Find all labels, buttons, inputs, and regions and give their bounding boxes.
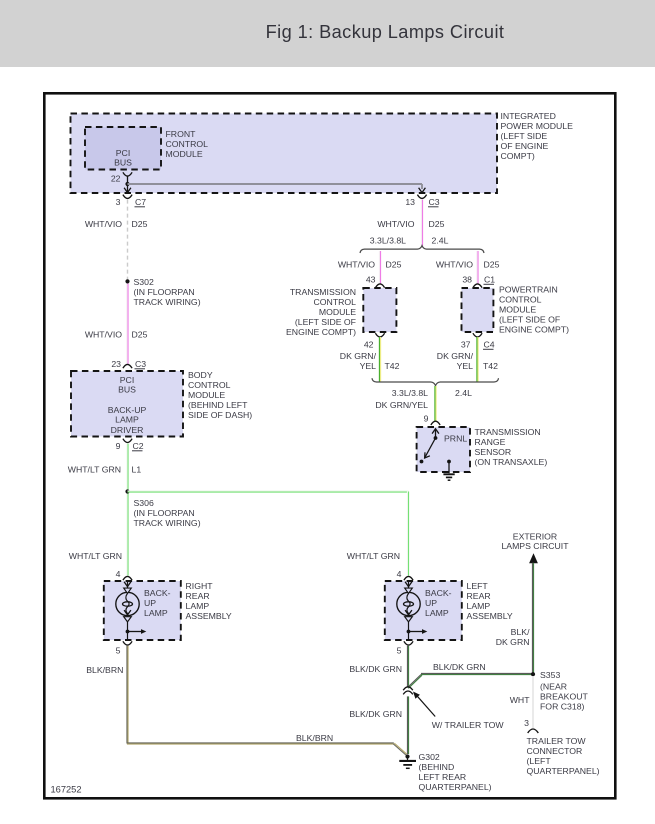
svg-text:167252: 167252	[51, 785, 82, 795]
wire BLK/DK GRN up to exterior lamps	[531, 563, 533, 674]
svg-text:LAMP: LAMP	[467, 601, 491, 611]
body control module (BCM) box	[71, 371, 183, 437]
svg-text:3.3L/3.8L: 3.3L/3.8L	[392, 388, 428, 398]
svg-text:WHT/LT GRN: WHT/LT GRN	[69, 551, 122, 561]
svg-text:TRACK WIRING): TRACK WIRING)	[134, 297, 201, 307]
svg-text:MODULE: MODULE	[319, 307, 356, 317]
pin 3 connector C7	[123, 195, 132, 199]
ground G302	[405, 754, 409, 758]
svg-text:OF ENGINE: OF ENGINE	[501, 141, 549, 151]
svg-text:DK GRN/: DK GRN/	[340, 351, 377, 361]
svg-text:ENGINE COMPT): ENGINE COMPT)	[286, 327, 356, 337]
svg-text:WHT/LT GRN: WHT/LT GRN	[68, 465, 121, 475]
svg-text:38: 38	[462, 275, 472, 285]
svg-text:RIGHT: RIGHT	[186, 581, 214, 591]
diagram frame	[44, 93, 615, 798]
svg-text:(LEFT SIDE OF: (LEFT SIDE OF	[499, 315, 560, 325]
svg-text:CONTROL: CONTROL	[314, 297, 357, 307]
svg-text:3.3L/3.8L: 3.3L/3.8L	[370, 236, 406, 246]
wire WHT/VIO to TCM	[378, 251, 380, 284]
svg-text:SENSOR: SENSOR	[475, 447, 512, 457]
wire WHT to trailer tow connector	[532, 676, 534, 728]
svg-text:WHT/VIO: WHT/VIO	[377, 219, 414, 229]
wire WHT/LT GRN branch to right	[128, 490, 409, 492]
svg-text:9: 9	[116, 441, 121, 451]
svg-text:WHT/VIO: WHT/VIO	[85, 219, 122, 229]
svg-text:(BEHIND: (BEHIND	[419, 762, 455, 772]
svg-text:LAMP: LAMP	[186, 601, 210, 611]
svg-text:BLK/: BLK/	[511, 627, 530, 637]
wire BLK/DK GRN below left lamp	[406, 646, 408, 688]
svg-text:BLK/DK GRN: BLK/DK GRN	[433, 662, 486, 672]
svg-text:(LEFT SIDE OF: (LEFT SIDE OF	[295, 317, 356, 327]
svg-text:5: 5	[397, 645, 402, 655]
svg-text:PCI: PCI	[120, 375, 134, 385]
integrated power module (IPM) box	[71, 114, 498, 194]
svg-text:WHT/VIO: WHT/VIO	[436, 260, 473, 270]
svg-text:3: 3	[116, 197, 121, 207]
svg-text:C3: C3	[429, 197, 440, 207]
splice S306	[125, 489, 129, 493]
svg-text:LAMP: LAMP	[144, 608, 168, 618]
svg-text:FRONT: FRONT	[166, 129, 197, 139]
svg-text:TRAILER TOW: TRAILER TOW	[527, 736, 587, 746]
svg-text:23: 23	[111, 359, 121, 369]
svg-text:UP: UP	[425, 598, 437, 608]
svg-text:ASSEMBLY: ASSEMBLY	[467, 611, 513, 621]
in-line connector (w/ trailer tow)	[403, 687, 413, 690]
svg-text:MODULE: MODULE	[188, 390, 225, 400]
svg-text:WHT/VIO: WHT/VIO	[85, 330, 122, 340]
pin 5 (right rear lamp)	[123, 641, 132, 645]
wire WHT/VIO S302 to BCM	[126, 284, 128, 365]
svg-text:2.4L: 2.4L	[432, 236, 449, 246]
svg-text:T42: T42	[385, 361, 400, 371]
svg-text:S302: S302	[134, 277, 154, 287]
splice S302	[125, 279, 129, 283]
svg-text:D25: D25	[429, 219, 445, 229]
svg-text:43: 43	[366, 275, 376, 285]
svg-text:EXTERIOR: EXTERIOR	[513, 531, 557, 541]
svg-text:C1: C1	[484, 275, 495, 285]
powertrain control module (PCM) box	[462, 288, 494, 332]
svg-text:POWER MODULE: POWER MODULE	[501, 121, 574, 131]
svg-text:RANGE: RANGE	[475, 437, 506, 447]
svg-text:BACK-UP: BACK-UP	[108, 405, 147, 415]
svg-text:BACK-: BACK-	[144, 588, 171, 598]
svg-text:SIDE OF DASH): SIDE OF DASH)	[188, 410, 252, 420]
svg-text:42: 42	[364, 340, 374, 350]
lamp case ground arrow (right)	[126, 630, 130, 634]
wire BLK/DK GRN diagonal branch	[408, 675, 422, 688]
svg-text:5: 5	[116, 645, 121, 655]
svg-text:4: 4	[397, 569, 402, 579]
svg-text:BLK/BRN: BLK/BRN	[296, 733, 333, 743]
wire WHT/VIO to PCM	[476, 251, 478, 284]
svg-text:FOR C318): FOR C318)	[540, 701, 585, 711]
pin 9 connector C2 (BCM)	[123, 439, 132, 443]
wire drop to pin 13	[421, 184, 423, 189]
svg-text:DRIVER: DRIVER	[111, 425, 144, 435]
svg-text:22: 22	[111, 174, 121, 184]
svg-text:BACK-: BACK-	[425, 588, 452, 598]
svg-text:CONTROL: CONTROL	[499, 295, 542, 305]
svg-text:C4: C4	[484, 340, 495, 350]
W/ TRAILER TOW callout arrow	[417, 695, 436, 716]
svg-text:BREAKOUT: BREAKOUT	[540, 691, 588, 701]
svg-text:9: 9	[424, 414, 429, 424]
back-up lamp bulb (left)	[408, 581, 410, 588]
svg-text:S306: S306	[134, 498, 154, 508]
svg-text:BLK/DK GRN: BLK/DK GRN	[349, 664, 402, 674]
svg-text:BLK/DK GRN: BLK/DK GRN	[349, 709, 402, 719]
svg-text:LAMP: LAMP	[425, 608, 449, 618]
svg-text:(NEAR: (NEAR	[540, 681, 567, 691]
splice S353	[531, 672, 535, 676]
svg-text:REAR: REAR	[186, 591, 210, 601]
svg-text:(ON TRANSAXLE): (ON TRANSAXLE)	[475, 457, 548, 467]
svg-text:T42: T42	[483, 361, 498, 371]
svg-text:PCI: PCI	[116, 148, 130, 158]
svg-text:LEFT REAR: LEFT REAR	[419, 772, 467, 782]
svg-text:REAR: REAR	[467, 591, 491, 601]
pin 5 (left rear lamp)	[404, 641, 413, 645]
svg-text:2.4L: 2.4L	[455, 388, 472, 398]
svg-text:(BEHIND LEFT: (BEHIND LEFT	[188, 400, 248, 410]
svg-text:BODY: BODY	[188, 370, 213, 380]
title bar	[0, 0, 655, 67]
TRS internal ground contact	[447, 460, 451, 464]
TRS switch: entry arrow	[435, 429, 437, 438]
svg-text:UP: UP	[144, 598, 156, 608]
svg-text:BLK/BRN: BLK/BRN	[86, 665, 123, 675]
transmission control module (TCM) box	[363, 288, 396, 332]
engine split brace	[360, 246, 484, 253]
TRS switch arm	[425, 438, 436, 458]
pin 37 connector C4 (PCM bottom)	[473, 333, 482, 337]
svg-text:WHT/VIO: WHT/VIO	[338, 260, 375, 270]
wire DK GRN/YEL T42 from TCM	[378, 337, 380, 382]
pin 13 connector C3	[417, 195, 426, 199]
TRS switch common contact	[434, 436, 438, 440]
wire WHT/LT GRN down to left rear lamp	[406, 492, 408, 576]
svg-text:BUS: BUS	[118, 385, 136, 395]
svg-text:BUS: BUS	[114, 158, 132, 168]
wire DK GRN/YEL to TRS	[434, 386, 436, 421]
svg-text:(IN FLOORPAN: (IN FLOORPAN	[134, 287, 195, 297]
svg-text:C3: C3	[135, 359, 146, 369]
svg-text:PRNL: PRNL	[444, 434, 467, 444]
svg-text:(LEFT: (LEFT	[527, 756, 552, 766]
wire WHT/VIO from IPM pin 13	[420, 200, 422, 246]
PCI bus line inside IPM	[128, 183, 423, 185]
engine merge brace	[372, 378, 499, 385]
svg-text:YEL: YEL	[360, 361, 377, 371]
svg-text:CONTROL: CONTROL	[188, 380, 231, 390]
svg-text:INTEGRATED: INTEGRATED	[501, 111, 556, 121]
svg-text:DK GRN/: DK GRN/	[437, 351, 474, 361]
svg-text:L1: L1	[132, 465, 142, 475]
wire: dashed bus wire C7 to S302	[127, 200, 129, 280]
wire DK GRN/YEL T42 from PCM	[476, 337, 478, 382]
svg-text:MODULE: MODULE	[166, 149, 203, 159]
svg-text:DK GRN/YEL: DK GRN/YEL	[375, 400, 428, 410]
svg-text:CONNECTOR: CONNECTOR	[527, 746, 583, 756]
svg-text:(IN FLOORPAN: (IN FLOORPAN	[134, 508, 195, 518]
svg-text:D25: D25	[132, 330, 148, 340]
svg-text:(LEFT SIDE: (LEFT SIDE	[501, 131, 548, 141]
svg-text:13: 13	[405, 197, 415, 207]
svg-text:POWERTRAIN: POWERTRAIN	[499, 285, 558, 295]
svg-text:ASSEMBLY: ASSEMBLY	[186, 611, 232, 621]
svg-text:WHT: WHT	[510, 695, 530, 705]
svg-text:W/ TRAILER TOW: W/ TRAILER TOW	[432, 720, 505, 730]
svg-text:37: 37	[461, 340, 471, 350]
svg-text:S353: S353	[540, 670, 560, 680]
wire BLK/DK GRN connector to G302	[406, 696, 408, 754]
TRS switch PRNL contact	[420, 460, 424, 464]
pin 42 (TCM bottom)	[375, 333, 384, 337]
svg-text:COMPT): COMPT)	[501, 151, 535, 161]
svg-text:D25: D25	[484, 260, 500, 270]
transmission range sensor (TRS) box	[417, 427, 470, 472]
svg-text:MODULE: MODULE	[499, 305, 536, 315]
svg-text:TRANSMISSION: TRANSMISSION	[290, 287, 356, 297]
svg-text:WHT/LT GRN: WHT/LT GRN	[347, 551, 400, 561]
svg-text:LAMP: LAMP	[115, 415, 139, 425]
svg-text:D25: D25	[386, 260, 402, 270]
svg-text:ENGINE COMPT): ENGINE COMPT)	[499, 325, 569, 335]
svg-text:DK GRN: DK GRN	[496, 637, 530, 647]
svg-text:TRANSMISSION: TRANSMISSION	[475, 427, 541, 437]
svg-text:3: 3	[524, 718, 529, 728]
svg-text:G302: G302	[419, 752, 440, 762]
back-up lamp bulb (right)	[127, 581, 129, 588]
junction node inside IPM	[125, 182, 129, 186]
left rear lamp assembly box	[385, 581, 462, 640]
wire BLK/BRN diagonal into G302	[393, 744, 406, 755]
PCI BUS box inside IPM (front control module)	[85, 127, 161, 170]
svg-text:QUARTERPANEL): QUARTERPANEL)	[527, 766, 600, 776]
svg-text:LEFT: LEFT	[467, 581, 489, 591]
wire BLK/DK GRN horizontal to S353	[421, 672, 533, 674]
svg-text:C7: C7	[135, 197, 146, 207]
wire pin22 to IPM edge	[127, 176, 129, 192]
svg-text:4: 4	[116, 569, 121, 579]
svg-text:CONTROL: CONTROL	[166, 139, 209, 149]
right rear lamp assembly box	[104, 581, 181, 640]
svg-text:TRACK WIRING): TRACK WIRING)	[134, 518, 201, 528]
wire WHT/LT GRN L1 from BCM	[126, 444, 128, 576]
svg-text:Fig 1: Backup Lamps Circuit: Fig 1: Backup Lamps Circuit	[266, 22, 505, 42]
svg-text:C2: C2	[133, 441, 144, 451]
svg-text:YEL: YEL	[457, 361, 474, 371]
svg-text:QUARTERPANEL): QUARTERPANEL)	[419, 782, 492, 792]
lamp case ground arrow (left)	[407, 630, 411, 634]
svg-text:LAMPS CIRCUIT: LAMPS CIRCUIT	[501, 541, 569, 551]
svg-text:D25: D25	[132, 219, 148, 229]
TRS case ground symbol	[443, 473, 454, 475]
